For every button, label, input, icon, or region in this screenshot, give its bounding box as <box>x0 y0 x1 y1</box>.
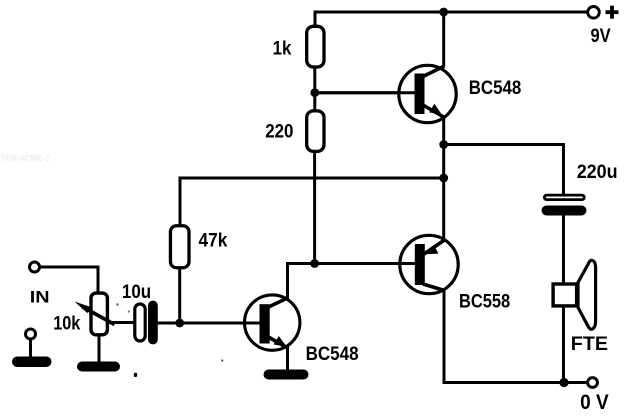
svg-text:10k: 10k <box>53 313 80 334</box>
svg-text:BC548: BC548 <box>306 344 359 365</box>
svg-text:BC558: BC558 <box>459 291 510 312</box>
svg-text:FTE: FTE <box>571 334 608 355</box>
svg-text:TER-ACME-2: TER-ACME-2 <box>1 154 50 163</box>
svg-text:1k: 1k <box>273 38 292 59</box>
svg-text:10u: 10u <box>122 282 151 303</box>
svg-text:0 V: 0 V <box>580 390 609 414</box>
svg-text:IN: IN <box>30 287 50 306</box>
svg-text:9V: 9V <box>591 26 611 47</box>
svg-text:47k: 47k <box>199 231 228 252</box>
svg-text:BC548: BC548 <box>469 78 522 99</box>
svg-text:220: 220 <box>265 122 293 143</box>
svg-text:220u: 220u <box>577 162 618 183</box>
